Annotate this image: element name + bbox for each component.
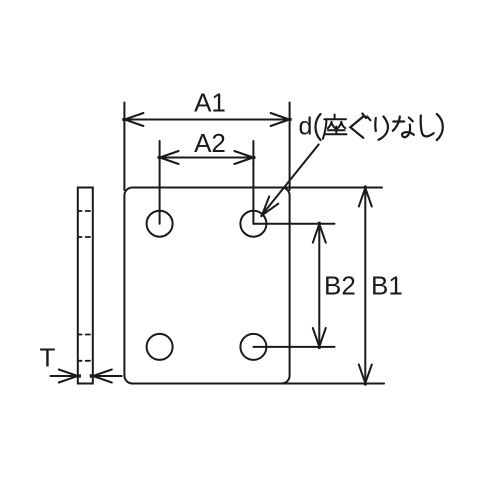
B2 extension line top (from top-right hole center)	[253, 223, 334, 225]
A2 extension line left	[159, 141, 161, 224]
T arrowhead right (pointing left at side view right face)	[91, 370, 112, 383]
A2 arrowhead left	[158, 151, 178, 164]
A2 extension line right	[252, 141, 254, 224]
T dimension tail right	[93, 375, 122, 377]
B2 extension line bottom (from bottom-right hole center)	[253, 346, 334, 348]
B2 arrowhead bottom	[313, 328, 326, 348]
A1 extension line right	[289, 103, 291, 191]
label hiragana GU (ぐ)	[350, 114, 370, 138]
label open paren (full-width)	[316, 114, 321, 140]
B1 extension line top	[282, 187, 382, 189]
leader arrowhead at hole	[261, 196, 278, 216]
hole top-left	[147, 211, 173, 237]
svg-text:d: d	[299, 113, 313, 141]
T arrowhead left (pointing right at side view left face)	[59, 370, 80, 383]
label kanji ZA (座)	[323, 115, 347, 139]
leader line from d label to top-right hole	[263, 144, 319, 214]
T dimension tail left	[51, 375, 78, 377]
B1 extension line bottom	[282, 383, 384, 385]
label hiragana SHI (し)	[421, 116, 434, 137]
B1 dimension line	[364, 188, 366, 384]
hole bottom-left	[147, 334, 173, 360]
hole top-right	[240, 211, 266, 237]
B2 dimension line	[318, 224, 320, 347]
label hiragana NA (な)	[393, 117, 414, 138]
side view hidden line (top hole upper edge)	[78, 210, 93, 212]
svg-text:B1: B1	[371, 271, 403, 301]
A1 arrowhead right	[271, 113, 291, 126]
B2 arrowhead top	[313, 223, 326, 243]
svg-text:A1: A1	[194, 88, 226, 118]
side view plate outline	[78, 188, 93, 384]
A1 extension line left	[123, 103, 125, 191]
side view hidden line (top hole lower edge)	[78, 236, 93, 238]
B1 arrowhead top	[359, 186, 372, 206]
A2 arrowhead right	[234, 151, 254, 164]
front view plate outline	[124, 188, 289, 384]
A1 dimension line	[124, 119, 289, 121]
side view hidden line (bottom hole lower edge)	[78, 360, 93, 362]
A2 dimension line	[160, 157, 254, 159]
B1 arrowhead bottom	[359, 365, 372, 385]
label hiragana RI (り)	[375, 117, 388, 140]
svg-text:T: T	[40, 343, 56, 373]
svg-text:B2: B2	[324, 271, 356, 301]
svg-text:A2: A2	[194, 128, 226, 158]
side view hidden line (bottom hole upper edge)	[78, 334, 93, 336]
label close paren (full-width)	[437, 114, 443, 140]
hole bottom-right	[240, 334, 266, 360]
A1 arrowhead left	[123, 113, 143, 126]
